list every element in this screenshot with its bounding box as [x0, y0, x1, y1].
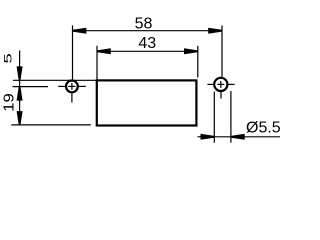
right hole center tick vertical [220, 81, 222, 88]
dimension line 43 [97, 50, 198, 52]
right hole center tick horizontal [217, 83, 224, 85]
body rectangle [97, 80, 197, 125]
svg-text:19: 19 [2, 93, 18, 112]
left hole center tick vertical [71, 83, 73, 90]
left hole crosshair horizontal left [58, 85, 65, 87]
right hole crosshair vertical lower [220, 92, 222, 99]
svg-text:Ø5.5: Ø5.5 [246, 119, 280, 136]
arrow 43 left [97, 48, 111, 54]
vertical dimension line for 5 and 19 [19, 51, 21, 125]
svg-text:58: 58 [135, 16, 153, 33]
left hole crosshair vertical lower [71, 93, 73, 102]
arrow 58 left [73, 28, 87, 34]
left mounting hole [66, 81, 78, 93]
extension line B hole centerline [13, 86, 49, 88]
dimension line 58 [73, 30, 223, 32]
extension line C rect bottom edge [11, 124, 91, 126]
extension line diameter left [213, 92, 215, 143]
arrow 43 right [184, 48, 198, 54]
extension line diameter right [230, 91, 232, 143]
right mounting hole [214, 78, 227, 91]
dimension line diameter 5.5 with tails [198, 136, 281, 138]
extension line left hole vertical (dim 58) [72, 25, 74, 79]
arrow 19 down at C [17, 111, 23, 125]
extension line rect left (dim 43) [96, 46, 98, 80]
arrow diameter left pointing right [201, 134, 215, 140]
svg-text:43: 43 [138, 35, 156, 52]
arrow 19 up at B [17, 87, 23, 101]
right hole crosshair horizontal right [228, 83, 234, 85]
extension line right hole vertical (dim 58) [221, 25, 223, 77]
svg-text:5: 5 [2, 53, 15, 63]
extension line rect right (dim 43) [197, 46, 199, 78]
right hole crosshair horizontal left [207, 83, 214, 85]
arrow diameter right pointing left [231, 134, 245, 140]
arrow 58 right [208, 28, 222, 34]
left hole center tick horizontal [68, 85, 75, 87]
left hole crosshair horizontal right [79, 85, 86, 87]
extension line A rect top edge [13, 79, 97, 81]
arrow 5 down (outside above A) [17, 66, 23, 80]
